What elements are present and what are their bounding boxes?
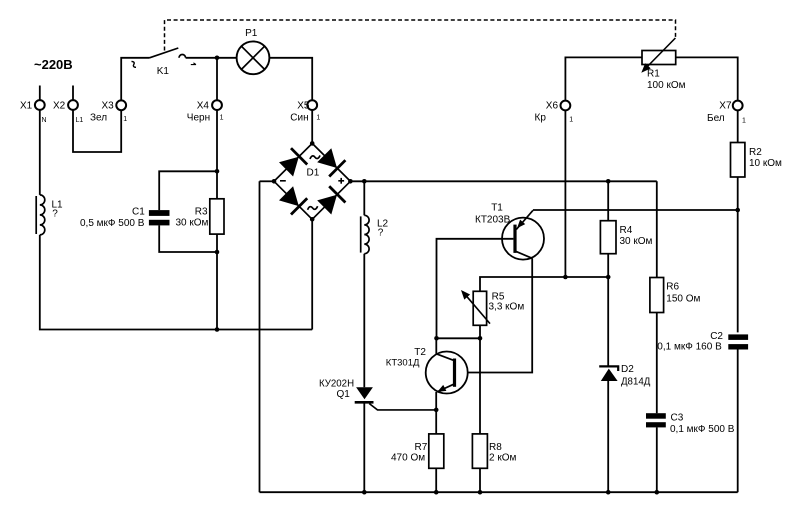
svg-text:1: 1 <box>316 115 320 122</box>
transistor T2 <box>386 347 468 394</box>
resistor R4 <box>600 221 652 254</box>
wire switch to lamp <box>186 57 237 59</box>
bridge rectifier D1 outline <box>274 143 350 219</box>
svg-text:X2: X2 <box>53 100 66 111</box>
terminal X5 <box>290 100 320 123</box>
svg-text:0,1 мкФ 160 В: 0,1 мкФ 160 В <box>657 342 722 353</box>
wire R1 to X7 <box>676 57 738 100</box>
wire D2 down <box>607 381 609 492</box>
svg-text:?: ? <box>378 228 384 239</box>
resistor R7 <box>391 434 444 468</box>
bridge diode D1c (left-bottom) <box>279 186 307 214</box>
wire thyristor gate <box>369 404 436 410</box>
wire bridge bottom to AC rail <box>311 219 313 329</box>
wire R8 bottom <box>479 468 481 492</box>
svg-text:X7: X7 <box>719 100 732 111</box>
wire R4 bottom to D2 <box>607 254 609 367</box>
wire X4 junction down <box>216 58 218 100</box>
node rail Q1 <box>362 490 367 495</box>
node rail R7 <box>434 490 439 495</box>
bridge AC mark top <box>310 155 320 159</box>
svg-text:Син: Син <box>290 113 308 124</box>
svg-text:30 кОм: 30 кОм <box>620 236 653 247</box>
svg-text:R1: R1 <box>647 68 660 79</box>
svg-text:X5: X5 <box>297 100 310 111</box>
node R5 bottom <box>478 336 483 341</box>
wire C2 down to bottom rail <box>737 350 739 493</box>
switch K1 <box>131 48 196 77</box>
wire plus to L2 <box>363 181 365 215</box>
node rail D2 <box>606 490 611 495</box>
svg-text:X1: X1 <box>20 100 33 111</box>
wire T1 collector down to T2 base <box>456 258 532 372</box>
svg-text:3,3 кОм: 3,3 кОм <box>489 301 525 312</box>
wire R5 down to R8 <box>479 325 481 434</box>
wire T1 emitter to R2 line <box>533 209 738 211</box>
resistor R2 <box>731 143 783 178</box>
capacitor C1 <box>80 207 170 229</box>
node C1/R3 bottom <box>215 250 220 255</box>
variable resistor R1 <box>641 38 685 91</box>
svg-text:1: 1 <box>220 115 224 122</box>
svg-text:L1: L1 <box>76 117 84 124</box>
label ~220V <box>34 57 73 72</box>
variable resistor R5 <box>461 290 524 325</box>
wire R6 branch down <box>656 181 658 277</box>
bridge plus mark <box>338 178 344 184</box>
wire R4 top <box>607 181 609 220</box>
transistor T1 <box>475 203 544 260</box>
terminal X4 <box>187 100 224 123</box>
svg-text:R3: R3 <box>195 207 208 218</box>
bottom rail <box>260 491 738 493</box>
svg-text:X4: X4 <box>197 100 210 111</box>
wire X7 down to R2 <box>737 110 739 142</box>
node bridge left <box>272 179 277 184</box>
svg-text:1: 1 <box>123 116 127 123</box>
node X4 junction <box>215 56 220 61</box>
svg-text:C3: C3 <box>671 412 684 423</box>
svg-text:100 кОм: 100 кОм <box>647 80 686 91</box>
svg-text:0,5 мкФ 500 В: 0,5 мкФ 500 В <box>80 218 145 229</box>
svg-text:Д814Д: Д814Д <box>621 377 651 388</box>
wire bridge plus rail <box>350 180 656 182</box>
svg-text:10 кОм: 10 кОм <box>749 158 782 169</box>
svg-text:2 кОм: 2 кОм <box>489 452 516 463</box>
svg-text:КТ203В: КТ203В <box>475 214 511 225</box>
node rail C3 <box>655 490 660 495</box>
zener diode D2 <box>599 364 651 388</box>
capacitor C3 <box>646 412 735 435</box>
svg-text:КУ202Н: КУ202Н <box>319 378 354 389</box>
svg-text:1: 1 <box>742 118 746 125</box>
resistor R8 <box>472 434 516 468</box>
wire R3 bottom <box>216 234 218 329</box>
wire R2 down <box>737 177 739 332</box>
bridge minus mark <box>280 180 286 182</box>
svg-text:30 кОм: 30 кОм <box>176 218 209 229</box>
wire R7 bottom <box>435 468 437 492</box>
svg-text:Бел: Бел <box>707 113 725 124</box>
wire R5 top to bias line <box>480 277 608 291</box>
wire X4 down to R3 <box>216 110 218 199</box>
svg-text:470 Ом: 470 Ом <box>391 452 425 463</box>
wire L2 to thyristor <box>363 254 365 388</box>
svg-text:C1: C1 <box>132 207 145 218</box>
resistor R3 <box>176 199 225 234</box>
capacitor C2 <box>657 331 748 353</box>
node bridge bottom <box>310 217 315 222</box>
svg-text:Зел: Зел <box>90 113 107 124</box>
inductor L2 <box>361 215 389 253</box>
node R2 / emitter line <box>735 208 740 213</box>
wire T2 collector up <box>435 338 437 354</box>
wire C3 down <box>656 427 658 492</box>
svg-text:Черн: Черн <box>187 113 210 124</box>
node C1/R3 top <box>215 169 220 174</box>
terminal X2 <box>53 86 83 124</box>
node R4 / bias line <box>606 275 611 280</box>
node T2 collector / R5 <box>434 336 439 341</box>
wire bridge minus to left rail <box>260 180 275 182</box>
svg-text:N: N <box>42 117 47 124</box>
svg-text:R4: R4 <box>620 225 633 236</box>
wire T2 emitter down <box>435 392 437 434</box>
wire minus rail down <box>259 181 261 492</box>
svg-text:Кр: Кр <box>535 113 547 124</box>
wire X2-X3 jumper <box>73 110 121 152</box>
node bridge right <box>348 179 353 184</box>
node rail R8 <box>478 490 483 495</box>
svg-text:C2: C2 <box>710 331 723 342</box>
wire thyristor cathode down <box>363 404 365 493</box>
svg-text:150 Ом: 150 Ом <box>666 294 700 305</box>
terminal X1 <box>20 86 47 124</box>
node L2 branch <box>362 179 367 184</box>
wire X3 to switch <box>121 58 149 101</box>
svg-text:D1: D1 <box>307 168 320 179</box>
wire C1 bottom branch <box>159 225 217 252</box>
wire R6 to C3 <box>656 313 658 414</box>
thyristor Q1 <box>319 378 374 402</box>
svg-text:D2: D2 <box>621 364 634 375</box>
svg-text:0,1 мкФ 500 В: 0,1 мкФ 500 В <box>670 424 735 435</box>
node AC rail / X4 line <box>215 327 220 332</box>
wire X6 up to R1 <box>565 57 642 100</box>
svg-text:X6: X6 <box>546 101 559 112</box>
svg-text:КТ301Д: КТ301Д <box>386 357 420 368</box>
svg-text:R6: R6 <box>666 282 679 293</box>
svg-text:K1: K1 <box>157 66 170 77</box>
wire X5 down to bridge <box>311 110 313 143</box>
wire T1 base left and down <box>437 239 514 338</box>
inductor L1 <box>36 195 63 235</box>
wire L1 to AC rail <box>40 235 312 330</box>
svg-text:Q1: Q1 <box>337 389 351 400</box>
svg-text:T1: T1 <box>491 203 503 214</box>
terminal X3 <box>90 100 127 123</box>
node X6 / bias line <box>563 275 568 280</box>
wire X1 down to L1 <box>39 110 41 195</box>
wire X6 down <box>564 110 566 277</box>
terminal X7 <box>707 100 746 124</box>
node R4 top <box>606 179 611 184</box>
svg-text:?: ? <box>52 209 58 220</box>
wire R5 bottom link <box>437 337 481 339</box>
lamp P1 <box>237 28 270 74</box>
dashed mechanical link K1-R1 <box>165 20 676 51</box>
bridge diode D1b (top-right) <box>317 148 345 176</box>
wire lamp to X5 <box>269 58 312 101</box>
bridge diode D1a (left-top) <box>279 148 307 176</box>
bridge AC mark bottom <box>308 206 318 210</box>
svg-text:~220В: ~220В <box>34 57 73 72</box>
svg-text:1: 1 <box>569 117 573 124</box>
resistor R6 <box>650 278 701 313</box>
wire C1 top branch <box>159 171 217 210</box>
svg-text:P1: P1 <box>245 28 258 39</box>
svg-text:R2: R2 <box>749 147 762 158</box>
svg-text:X3: X3 <box>102 100 115 111</box>
bridge diode D1d (bottom-right) <box>317 186 345 214</box>
terminal X6 <box>535 101 574 124</box>
node T2 emitter / gate <box>434 408 439 413</box>
node bridge top <box>310 141 315 146</box>
